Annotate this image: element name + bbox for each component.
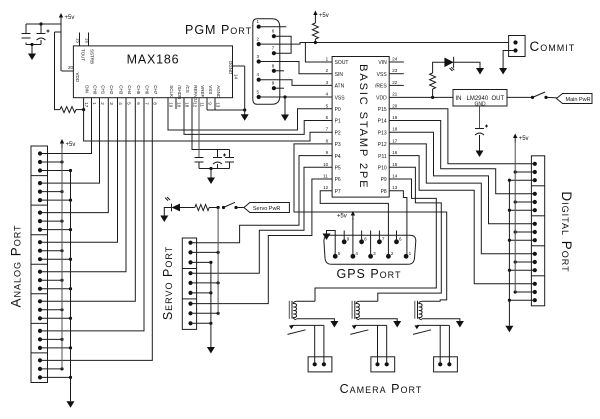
wire camera 1 pinA xyxy=(314,325,316,364)
wire C7 to gnd xyxy=(479,135,481,151)
wire PGM pin5 to VSS xyxy=(259,96,332,98)
pin analog 16 xyxy=(38,299,42,303)
ground top-left xyxy=(28,54,36,61)
ground Commit xyxy=(499,68,507,75)
wire analog gnd row 4 xyxy=(40,288,71,290)
svg-text:Digital Port: Digital Port xyxy=(559,191,574,272)
wire CH7 signal xyxy=(40,98,152,361)
ground camera 2 xyxy=(393,321,401,328)
capacitor C4 VREF xyxy=(195,158,204,163)
pin digital 5 xyxy=(533,200,537,204)
wire analog +5v row 6 xyxy=(40,338,62,340)
svg-text:P4: P4 xyxy=(335,154,341,160)
wire CH6 signal xyxy=(40,98,144,331)
wire servo +5v row 0 xyxy=(191,251,219,253)
wire GPS pin7 stub xyxy=(378,231,380,242)
svg-text:P9: P9 xyxy=(381,177,387,183)
wire servo gnd row 2 xyxy=(191,322,211,324)
wire CH3 signal xyxy=(40,98,118,243)
pin camera3 A xyxy=(438,362,442,366)
svg-text:IN: IN xyxy=(456,96,462,102)
junction analog +5v 4 xyxy=(60,279,63,282)
wire P11 to digital port xyxy=(389,156,535,284)
junction PGM gnd xyxy=(283,95,286,98)
wire caps join xyxy=(199,168,230,170)
wire cap C1 top lead xyxy=(25,24,27,34)
wire servo LED gnd xyxy=(164,208,171,216)
junction digital +5v 0 xyxy=(514,170,517,173)
wire P8 to GPS pin1 xyxy=(389,191,407,257)
capacitor C2 polarized xyxy=(37,30,50,41)
pin analog 23 xyxy=(38,367,42,371)
wire analog gnd row 7 xyxy=(40,376,71,378)
wire CH2 signal xyxy=(40,98,108,213)
svg-text:10: 10 xyxy=(177,102,182,108)
wire servo gnd rail xyxy=(210,262,212,347)
connector J5 GPS DB9 shell xyxy=(324,235,416,264)
resistor R3 LED xyxy=(430,73,436,89)
svg-text:P15: P15 xyxy=(378,107,387,113)
pin 2 GPS xyxy=(386,254,391,259)
svg-text:P11: P11 xyxy=(378,154,387,160)
wire servo signal 2 xyxy=(191,167,333,273)
junction servo gnd 2 xyxy=(209,322,212,325)
svg-text:19: 19 xyxy=(169,102,174,108)
wire analog section divider 2 xyxy=(31,204,48,206)
power +5v pullup xyxy=(313,11,329,20)
svg-text:VSS: VSS xyxy=(377,72,388,78)
wire R4 to junction xyxy=(209,207,218,209)
wire PGM 6-7 jumper xyxy=(274,36,291,53)
svg-text:11: 11 xyxy=(323,174,328,179)
wire /CS to P1 xyxy=(184,98,332,135)
wire R3 to LED xyxy=(433,62,445,73)
svg-text:P1: P1 xyxy=(335,119,341,125)
wire camera 2 pinA xyxy=(377,325,379,364)
wire analog gnd row 5 xyxy=(40,317,71,319)
wire servo divider 2 xyxy=(182,298,196,300)
pin digital 3 xyxy=(533,178,537,182)
wire +5v rail to resistor xyxy=(55,32,61,110)
wire ref caps to gnd xyxy=(210,169,212,178)
wire analog section divider 5 xyxy=(31,293,48,295)
wire /RES stub xyxy=(389,84,404,86)
pin analog 5 xyxy=(38,190,42,194)
wire LED to gnd xyxy=(453,62,480,68)
wire P10 camera feed xyxy=(378,167,442,301)
ground camera 3 xyxy=(456,321,464,328)
svg-text:21: 21 xyxy=(392,92,398,97)
wire servo gnd row 0 xyxy=(191,261,211,263)
junction digital gnd 3 xyxy=(508,269,511,272)
svg-text:+5v: +5v xyxy=(519,136,529,142)
svg-text:MAX186: MAX186 xyxy=(127,53,180,67)
wire camera 2 contact arrow xyxy=(352,325,357,329)
pin analog 12 xyxy=(38,257,42,261)
wire PGM pin9 stub xyxy=(274,87,284,89)
junction digital gnd 2 xyxy=(508,239,511,242)
svg-text:CH4: CH4 xyxy=(127,85,132,94)
capacitor C7 regulator xyxy=(475,125,488,136)
wire digital +5v row 4 xyxy=(515,291,535,293)
junction servo gnd 1 xyxy=(209,291,212,294)
svg-text:CH3: CH3 xyxy=(118,85,123,94)
pin analog 17 xyxy=(38,308,42,312)
pin digital 9 xyxy=(533,238,537,242)
pin 15 TOUT stub xyxy=(79,33,81,46)
svg-text:AGND: AGND xyxy=(216,85,221,99)
inductor L1 camera xyxy=(289,301,296,320)
wire L2 top lead xyxy=(359,300,378,302)
svg-text:24: 24 xyxy=(392,57,398,62)
pin 3 PGM xyxy=(257,59,261,63)
svg-text:16: 16 xyxy=(392,150,398,155)
label Servo PwR tag xyxy=(244,203,290,213)
svg-text:15: 15 xyxy=(392,162,398,167)
wire digital divider 1 xyxy=(531,185,544,187)
svg-text:P5: P5 xyxy=(335,166,341,172)
svg-text:DIN: DIN xyxy=(84,85,89,93)
connector J8 camera body xyxy=(371,357,395,372)
wire digital divider 2 xyxy=(531,215,544,217)
pin analog 18 xyxy=(38,316,42,320)
wire L3 top lead xyxy=(422,300,441,302)
junction DGND xyxy=(243,108,246,111)
wire switch to tag xyxy=(548,96,558,99)
pin 6 PGM xyxy=(272,34,276,38)
svg-text:12: 12 xyxy=(323,185,329,190)
svg-text:CH0: CH0 xyxy=(92,85,97,94)
wire camera 2 row xyxy=(354,324,387,326)
svg-text:CH7: CH7 xyxy=(153,85,158,94)
ground regulator cap xyxy=(476,151,484,158)
svg-text:CH5: CH5 xyxy=(136,85,141,94)
label Main PwR tag xyxy=(557,94,593,104)
svg-text:Analog Port: Analog Port xyxy=(9,224,24,307)
svg-text:12: 12 xyxy=(193,102,198,108)
switch lever camera 2 xyxy=(350,330,368,335)
wire regulator out xyxy=(507,96,531,98)
pin 9 PGM xyxy=(272,86,276,90)
wire /SHDN stub xyxy=(175,98,177,109)
wire CH5 signal xyxy=(40,98,135,302)
pin 7 PGM xyxy=(272,51,276,55)
svg-text:+5v: +5v xyxy=(65,15,75,21)
junction analog +5v 0 xyxy=(60,160,63,163)
svg-text:SCLK: SCLK xyxy=(169,85,174,97)
svg-text:14: 14 xyxy=(392,174,398,179)
ground LED xyxy=(476,68,484,75)
diode D1 LED xyxy=(444,57,454,71)
connector J3 Analog Port body xyxy=(31,146,48,383)
wire camera 3 pinA xyxy=(439,325,441,364)
wire CH4 signal xyxy=(40,98,126,272)
svg-text:16: 16 xyxy=(85,38,90,44)
svg-text:14: 14 xyxy=(234,74,239,80)
wire +5v to caps xyxy=(26,24,61,32)
wire L3 bottom to gnd xyxy=(422,319,460,322)
wire analog +5v row 3 xyxy=(40,250,62,252)
connector J9 camera body xyxy=(434,357,458,372)
pin analog 10 xyxy=(38,240,42,244)
wire GPS pin6 stub xyxy=(396,231,398,242)
resistor R1 DIN pullup xyxy=(60,107,76,113)
inductor L2 camera xyxy=(352,301,359,320)
wire SCLK to P0 xyxy=(168,98,332,130)
svg-text:Servo PwR: Servo PwR xyxy=(253,206,281,212)
wire servo +5v row 2 xyxy=(191,312,219,314)
pin analog 6 xyxy=(38,198,42,202)
pin camera1 A xyxy=(313,362,317,366)
wire digital gnd row 3 xyxy=(509,269,534,271)
wire P14 to digital port xyxy=(389,121,535,194)
junction analog +5v 7 xyxy=(60,367,63,370)
wire servo signal 3 xyxy=(191,179,333,304)
wire L2 bottom to gnd xyxy=(359,319,397,322)
wire analog gnd run xyxy=(207,109,245,111)
pin analog 13 xyxy=(38,270,42,274)
wire digital +5v row 0 xyxy=(515,171,535,173)
svg-text:VIN: VIN xyxy=(378,60,387,66)
svg-text:VSS: VSS xyxy=(335,95,346,101)
junction servo +5v rail xyxy=(217,206,220,209)
wire LED to R4 xyxy=(180,207,195,209)
pin 4 PGM xyxy=(257,78,261,82)
svg-text:SSTRB: SSTRB xyxy=(90,49,95,64)
pin camera1 B xyxy=(322,362,326,366)
svg-text:P8: P8 xyxy=(381,189,387,195)
svg-text:P7: P7 xyxy=(335,189,341,195)
pin analog 15 xyxy=(38,287,42,291)
ground MAX186 xyxy=(241,114,249,121)
wire servo +5v rail xyxy=(217,208,219,314)
junction analog gnd 2 xyxy=(69,228,72,231)
junction digital +5v 4 xyxy=(514,290,517,293)
svg-text:20: 20 xyxy=(392,103,398,108)
pin 14 DGND stub xyxy=(233,65,245,67)
wire cap C6 lead xyxy=(229,150,231,158)
capacitor C6 xyxy=(225,158,234,163)
pin 1 GPS xyxy=(404,254,409,259)
pin digital 14 xyxy=(533,290,537,294)
junction analog gnd 0 xyxy=(69,169,72,172)
ground GPS xyxy=(323,234,331,241)
svg-text:P13: P13 xyxy=(378,130,387,136)
svg-text:CH1: CH1 xyxy=(100,85,105,94)
wire cap C2 bottom lead xyxy=(40,40,42,45)
wire REFADJ bracket xyxy=(192,98,230,150)
wire +5v to R2 xyxy=(314,20,316,24)
pin servo 9 xyxy=(188,321,192,325)
svg-text:PGM Port: PGM Port xyxy=(185,23,252,37)
wire GPS pin5 gnd xyxy=(327,231,336,257)
wire PGM pin4 to ATN xyxy=(259,80,332,86)
ground digital rail xyxy=(505,326,513,333)
wire P13 to digital port xyxy=(389,132,535,224)
wire digital +5v row 2 xyxy=(515,231,535,233)
wire cap C2 top lead xyxy=(40,24,42,34)
wire regulator gnd xyxy=(479,106,481,129)
wire analog gnd row 3 xyxy=(40,258,71,260)
pin camera2 B xyxy=(385,362,389,366)
wire GPS pin4 +5v xyxy=(352,218,354,256)
pin 2 PGM xyxy=(257,42,261,46)
wire analog +5v row 4 xyxy=(40,279,62,281)
wire +5v stub down xyxy=(60,22,62,24)
wire P7 to GPS pin2 xyxy=(320,191,388,257)
wire camera 1 row xyxy=(291,324,324,326)
wire P15 to digital port xyxy=(389,109,535,164)
wire digital gnd rail xyxy=(508,180,510,326)
wire digital gnd row 2 xyxy=(509,239,534,241)
svg-text:20: 20 xyxy=(68,65,74,70)
svg-text:15: 15 xyxy=(76,38,81,44)
pin digital 1 xyxy=(533,162,537,166)
svg-text:Commit: Commit xyxy=(530,39,576,54)
svg-text:18: 18 xyxy=(392,127,398,132)
svg-text:13: 13 xyxy=(216,102,221,108)
wire PGM pin3 to SIN xyxy=(259,62,332,74)
wire analog gnd row 1 xyxy=(40,199,71,201)
pin digital 11 xyxy=(533,260,537,264)
ground servo LED xyxy=(160,216,168,223)
inductor L3 camera xyxy=(415,301,422,320)
wire +5v to VDD xyxy=(60,24,62,71)
svg-text:10: 10 xyxy=(323,162,329,167)
pin servo 8 xyxy=(188,311,192,315)
svg-text:GND: GND xyxy=(475,101,487,107)
junction analog +5v 6 xyxy=(60,338,63,341)
junction ref caps gnd xyxy=(209,167,212,170)
pin 2 Commit xyxy=(513,48,517,52)
wire switch to servo tag xyxy=(238,207,244,209)
junction servo +5v 0 xyxy=(217,251,220,254)
svg-text:P3: P3 xyxy=(335,142,341,148)
svg-text:P14: P14 xyxy=(378,119,387,125)
svg-text:/CS: /CS xyxy=(185,85,190,93)
pin digital 2 xyxy=(533,170,537,174)
ground servo rail xyxy=(207,347,215,354)
wire digital divider 4 xyxy=(531,275,544,277)
wire analog +5v rail xyxy=(61,148,63,369)
wire digital +5v rail xyxy=(514,142,516,292)
pin analog 20 xyxy=(38,337,42,341)
resistor R2 SOUT pullup xyxy=(312,23,318,39)
pin 1 PGM xyxy=(257,25,261,29)
wire PGM gnd drop xyxy=(284,97,286,115)
power +5v analog xyxy=(60,139,76,148)
wire analog section divider 1 xyxy=(31,175,48,177)
pin analog 3 xyxy=(38,168,42,172)
pin servo 7 xyxy=(188,302,192,306)
wire +5v tap xyxy=(55,31,62,33)
junction servo +5v 2 xyxy=(217,312,220,315)
pin analog 19 xyxy=(38,329,42,333)
op-amp U1 MAX186 body xyxy=(73,46,232,98)
wire servo gnd row 1 xyxy=(191,292,211,294)
wire AGND down xyxy=(214,98,216,110)
svg-text:17: 17 xyxy=(84,102,89,108)
junction analog +5v 2 xyxy=(60,220,63,223)
wire CH0 signal xyxy=(40,98,92,154)
svg-text:OUT: OUT xyxy=(492,96,505,102)
pin digital 6 xyxy=(533,208,537,212)
svg-text:Camera Port: Camera Port xyxy=(340,382,423,396)
svg-text:SOUT: SOUT xyxy=(335,60,349,66)
wire analog gnd rail xyxy=(70,171,72,402)
wire VREF to cap xyxy=(198,98,200,158)
wire Commit pin2 gnd xyxy=(503,51,515,69)
capacitor C1 xyxy=(22,34,31,39)
pin analog 11 xyxy=(38,249,42,253)
op-amp U3 LM2940 body xyxy=(453,90,507,107)
junction digital gnd 0 xyxy=(508,179,511,182)
wire CH1 signal xyxy=(40,98,100,183)
pin camera2 A xyxy=(375,362,379,366)
pin 5 PGM xyxy=(257,95,261,99)
ground analog rail xyxy=(67,401,75,408)
connector J6 Digital Port body xyxy=(531,156,544,306)
svg-text:TOUT: TOUT xyxy=(81,49,86,61)
wire VIN stub xyxy=(389,61,404,63)
junction digital +5v 1 xyxy=(514,200,517,203)
svg-text:17: 17 xyxy=(392,138,398,143)
junction digital +5v 3 xyxy=(514,260,517,263)
power +5v supply top-left xyxy=(59,13,75,22)
wire analog section divider 3 xyxy=(31,234,48,236)
wire PGM pin1 stub xyxy=(259,26,287,28)
wire cap C4 bottom xyxy=(198,162,200,169)
wire DGND down xyxy=(244,66,246,115)
svg-text:/RES: /RES xyxy=(375,84,387,90)
power +5v GPS xyxy=(337,211,355,220)
svg-text:BASIC STAMP 2PE: BASIC STAMP 2PE xyxy=(357,64,369,189)
svg-text:VSS: VSS xyxy=(208,85,213,94)
wire analog section divider 7 xyxy=(31,352,48,354)
switch S1 Main PwR xyxy=(531,92,548,99)
wire camera 1 contact arrow xyxy=(289,325,294,329)
wire R2 to rail xyxy=(314,39,316,43)
junction analog +5v 1 xyxy=(60,190,63,193)
wire VSS23 stub xyxy=(389,73,404,75)
wire cap C1 bottom lead xyxy=(25,43,27,45)
pin digital 15 xyxy=(533,298,537,302)
pin analog 8 xyxy=(38,219,42,223)
wire camera 3 row xyxy=(417,324,450,326)
svg-text:P12: P12 xyxy=(378,142,387,148)
pin analog 4 xyxy=(38,181,42,185)
svg-text:P2: P2 xyxy=(335,130,341,136)
wire VSS down xyxy=(206,98,208,110)
pin 1 Commit xyxy=(513,40,517,44)
svg-text:+5v: +5v xyxy=(319,13,329,19)
pin digital 13 xyxy=(533,282,537,286)
ground camera 1 xyxy=(330,321,338,328)
wire analog gnd row 6 xyxy=(40,347,71,349)
pin analog 21 xyxy=(38,346,42,350)
pin 5 GPS xyxy=(333,254,338,259)
junction analog +5v 5 xyxy=(60,308,63,311)
svg-text:+5v: +5v xyxy=(66,142,76,148)
junction analog +5v 3 xyxy=(60,249,63,252)
capacitor C5 polarized xyxy=(213,154,226,165)
wire servo signal 1 xyxy=(191,156,333,243)
svg-text:GPS Port: GPS Port xyxy=(336,267,401,281)
wire digital gnd row 0 xyxy=(509,179,534,181)
svg-text:18: 18 xyxy=(185,102,190,108)
connector J7 camera body xyxy=(308,357,332,372)
diode D2 servo LED xyxy=(165,197,180,211)
